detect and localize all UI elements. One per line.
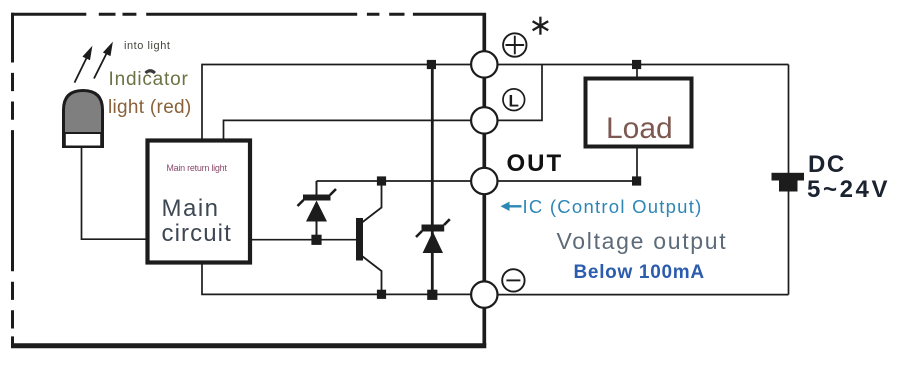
asterisk (533, 17, 549, 35)
svg-text:L: L (509, 92, 519, 111)
svg-text:Main: Main (162, 195, 220, 222)
terminal L (2) (471, 107, 497, 133)
wire: bottom rail inside enclosure (y=294.4) (202, 263, 471, 295)
svg-text:light (red): light (red) (108, 97, 192, 118)
junction on + rail at load stub (632, 60, 641, 69)
junction on OUT line at collector (377, 176, 386, 185)
junction on + rail at D2 column (427, 60, 436, 69)
svg-text:Main return light: Main return light (166, 163, 227, 173)
minus symbol in circle (502, 269, 524, 291)
terminal + (1) (471, 51, 497, 77)
arrow into light 1 (75, 49, 92, 83)
battery DC source (772, 173, 805, 192)
label: IC control output (501, 196, 703, 217)
wire: DC branch vertical (x=788.5) (788, 65, 790, 295)
wire: zener D2 column (x=432.3) (431, 65, 434, 295)
svg-text:Below 100mA: Below 100mA (574, 262, 705, 283)
zener diode D1 (298, 181, 337, 240)
wire: minus rail outside (y=294.6) (498, 294, 789, 296)
svg-text:Voltage output: Voltage output (557, 228, 728, 254)
svg-text:circuit: circuit (162, 220, 232, 247)
enclosure dashed border left (11, 13, 14, 348)
terminal minus (4) (471, 281, 497, 307)
svg-text:into light: into light (124, 40, 170, 52)
enclosure border bottom (11, 343, 486, 348)
wire: base wire from main circuit to transistor (250, 239, 357, 241)
junction on OUT line at load stub (632, 176, 641, 185)
transistor Q1 (356, 181, 382, 294)
enclosure dashed border top (11, 13, 486, 16)
svg-text:OUT: OUT (507, 150, 564, 177)
stray arc artifact above Indicator (146, 71, 156, 73)
svg-text:DC: DC (808, 151, 846, 178)
wire: load top stub (636, 65, 638, 79)
junction on bottom rail at emitter (377, 290, 386, 299)
L symbol in circle (503, 89, 525, 111)
terminal column line (enclosure right edge) (482, 13, 486, 345)
zener diode D2 (416, 219, 450, 253)
plus symbol in circle (503, 33, 526, 56)
svg-text:Load: Load (606, 112, 673, 145)
wire: OUT line (y=181) (317, 180, 638, 182)
terminal OUT (3) (471, 168, 497, 194)
wire: jumper from L terminal up to + rail (498, 65, 542, 121)
junction on base wire at D1 anode (311, 235, 321, 245)
main circuit box U1 (148, 141, 251, 263)
svg-text:5~24V: 5~24V (807, 176, 890, 203)
load box (586, 79, 692, 147)
wire: L line from main circuit to L terminal (y=120.4) (224, 120, 471, 140)
wire: indicator LED lead (82, 146, 148, 239)
wire: + rail from main circuit to DC branch (y=64.5) (202, 65, 789, 141)
junction on bottom rail at D2 (427, 290, 437, 300)
arrow into light 2 (94, 45, 112, 79)
indicator LED lamp (64, 91, 103, 147)
svg-text:IC (Control Output): IC (Control Output) (523, 196, 703, 217)
wire: load bottom stub (636, 147, 638, 182)
